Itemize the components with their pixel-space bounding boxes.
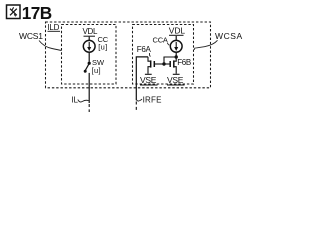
svg-text:VDL: VDL: [83, 27, 99, 36]
svg-text:17B: 17B: [22, 3, 52, 23]
svg-text:VDL: VDL: [169, 25, 186, 35]
svg-text:CCA: CCA: [153, 35, 168, 44]
svg-text:F6A: F6A: [137, 45, 152, 54]
wire VDL to CCA: [175, 36, 177, 41]
svg-text:WCSA: WCSA: [215, 31, 243, 41]
svg-text:ILD: ILD: [48, 23, 60, 32]
svg-text:WCS1: WCS1: [19, 31, 43, 41]
outer dashed box ILD: [46, 22, 211, 88]
squiggle IRFE: [136, 98, 142, 101]
wire CCA to node: [175, 52, 177, 57]
leader WCS1: [39, 41, 62, 51]
svg-text:VSE: VSE: [167, 75, 184, 85]
wire VDL to CC: [88, 37, 90, 41]
svg-text:[u]: [u]: [98, 42, 107, 51]
node gate: [162, 62, 165, 65]
inner dashed box WCSA: [133, 25, 194, 85]
node drain F6B: [175, 55, 178, 58]
svg-text:[u]: [u]: [92, 66, 102, 75]
transistor F6A: [148, 57, 154, 74]
figure title 図17B: [7, 5, 21, 19]
terminal bar VSE left: [145, 73, 152, 75]
leader F6A: [149, 53, 150, 57]
svg-text:IRFE: IRFE: [143, 95, 162, 104]
wire CC to switch: [88, 52, 90, 62]
wire gates: [154, 63, 169, 65]
inner dashed box WCS1: [62, 25, 117, 85]
wire F6A drain to IRFE: [136, 57, 148, 100]
wire diode connection: [164, 57, 176, 63]
leader WCSA: [194, 40, 217, 50]
dashed continuation IRFE: [135, 102, 137, 112]
dashed continuation IL: [88, 104, 90, 112]
current source CCA: [170, 40, 182, 52]
squiggle IL: [78, 100, 89, 102]
svg-text:F6B: F6B: [177, 58, 191, 67]
terminal bar VSE right: [173, 73, 180, 75]
transistor F6B: [170, 58, 176, 74]
leader tick CCA: [167, 43, 169, 45]
switch SW: [88, 62, 91, 65]
wire switch to IL: [88, 73, 90, 103]
current source CC: [83, 40, 95, 52]
svg-text:VSE: VSE: [140, 75, 157, 85]
